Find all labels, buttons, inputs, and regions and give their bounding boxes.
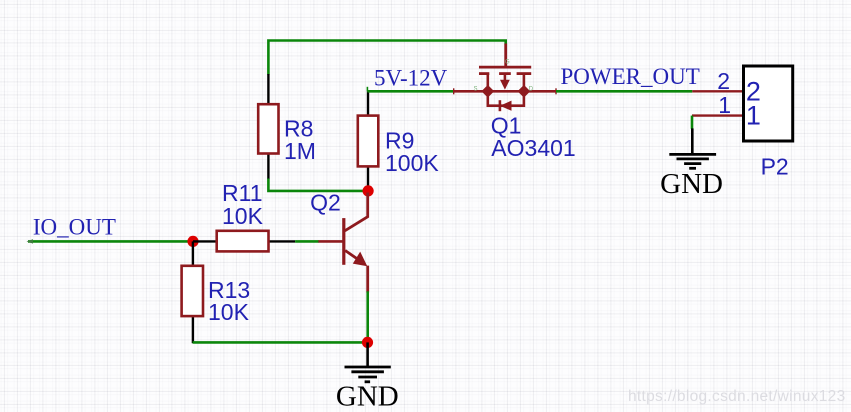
svg-text:1M: 1M bbox=[284, 138, 316, 164]
node junction IO_OUT / R11 / R13 bbox=[187, 236, 198, 247]
svg-text:10K: 10K bbox=[222, 203, 264, 229]
svg-text:S: S bbox=[474, 86, 478, 92]
svg-text:10K: 10K bbox=[208, 299, 250, 325]
connector P2 bbox=[692, 66, 793, 180]
svg-text:100K: 100K bbox=[385, 150, 439, 176]
resistor R13 bbox=[182, 241, 251, 343]
svg-text:GND: GND bbox=[336, 381, 399, 412]
transistor Q2 bbox=[310, 189, 368, 292]
wire GND drop (bottom) bbox=[366, 342, 369, 366]
svg-text:5V-12V: 5V-12V bbox=[374, 65, 448, 90]
transistor Q1 bbox=[454, 44, 576, 162]
wire POWER_OUT bbox=[556, 90, 692, 93]
svg-text:https://blog.csdn.net/winux123: https://blog.csdn.net/winux123 bbox=[628, 388, 846, 405]
wire emitter to bottom node bbox=[366, 291, 369, 338]
svg-text:Q2: Q2 bbox=[310, 189, 341, 215]
svg-text:POWER_OUT: POWER_OUT bbox=[561, 64, 700, 89]
resistor R9 bbox=[358, 91, 440, 191]
wire IO_OUT bbox=[27, 239, 189, 243]
wire P2 pin1 to GND bbox=[691, 116, 694, 154]
wire 5V-12V rail bbox=[367, 87, 454, 92]
node junction emitter / R13 / GND bbox=[362, 337, 373, 348]
ground GND (P2) bbox=[660, 154, 723, 200]
wire bottom rail bbox=[193, 341, 363, 344]
svg-text:1: 1 bbox=[718, 92, 731, 118]
svg-text:1: 1 bbox=[746, 101, 761, 131]
ground GND (bottom) bbox=[336, 367, 399, 412]
svg-text:D: D bbox=[529, 86, 534, 92]
resistor R11 bbox=[193, 180, 295, 251]
wire R11 to Q2 base bbox=[295, 240, 319, 243]
svg-text:G: G bbox=[505, 60, 510, 66]
svg-text:2: 2 bbox=[717, 68, 730, 94]
svg-text:IO_OUT: IO_OUT bbox=[33, 215, 116, 240]
svg-text:AO3401: AO3401 bbox=[491, 135, 575, 161]
wire R8 bottom to node bbox=[268, 179, 363, 191]
resistor R8 bbox=[258, 74, 316, 179]
svg-text:GND: GND bbox=[660, 168, 723, 200]
node junction R9 bottom / Q2 collector bbox=[363, 185, 374, 196]
wire VCC top loop bbox=[268, 41, 505, 75]
svg-text:P2: P2 bbox=[761, 154, 789, 180]
